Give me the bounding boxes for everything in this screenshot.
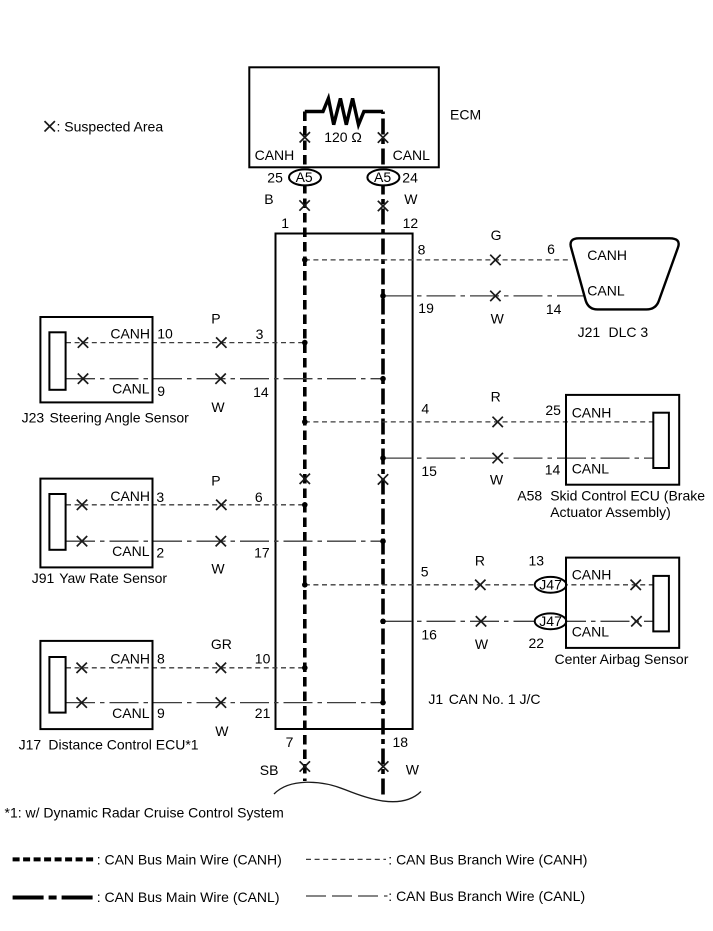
svg-text:13: 13 xyxy=(529,553,545,569)
svg-text:CANL: CANL xyxy=(112,381,150,397)
node: junction dot CANL/DLC3 branch xyxy=(380,293,386,299)
legend: CAN bus main wire CANH sample line xyxy=(13,857,95,861)
svg-text:CANH: CANH xyxy=(587,247,627,263)
connector terminal rect in distance box xyxy=(49,657,65,713)
svg-text:W: W xyxy=(215,723,229,739)
connector A5 oval (CANL, pin 24) xyxy=(367,169,399,185)
svg-text:12: 12 xyxy=(403,215,419,231)
svg-text:: CAN Bus Branch Wire (CANL): : CAN Bus Branch Wire (CANL) xyxy=(388,888,585,904)
suspected area mark inside airbag box CANL xyxy=(631,616,641,626)
svg-text:: CAN Bus Main Wire (CANH): : CAN Bus Main Wire (CANH) xyxy=(97,851,282,867)
svg-text:A5: A5 xyxy=(296,169,313,185)
svg-text:8: 8 xyxy=(418,241,426,257)
wire CANH branch to DLC3 (pin 8 to 6) xyxy=(305,259,572,261)
node: junction dot CANH/DLC3 branch xyxy=(302,257,308,263)
svg-text:CANH: CANH xyxy=(110,326,150,342)
wire CANH branch from Yaw Rate Sensor (pin 3 to 6) xyxy=(66,504,305,506)
svg-text:CANH: CANH xyxy=(572,405,612,421)
svg-text:CANL: CANL xyxy=(572,624,610,640)
ECU Center Airbag Sensor box xyxy=(566,558,679,648)
suspected area mark on CANH below A5 xyxy=(299,200,309,210)
suspected area mark inside steering box CANL xyxy=(78,374,88,384)
svg-text:14: 14 xyxy=(545,462,561,478)
legend: CAN bus branch wire CANL sample line xyxy=(306,895,388,897)
svg-text:W: W xyxy=(404,191,418,207)
suspected area mark inside airbag box CANH xyxy=(631,580,641,590)
legend: CAN bus main wire CANL sample line xyxy=(13,896,95,900)
svg-text:5: 5 xyxy=(421,563,429,579)
svg-text:1: 1 xyxy=(281,215,289,231)
svg-text:10: 10 xyxy=(255,651,271,667)
svg-text:6: 6 xyxy=(547,241,555,257)
svg-text:Yaw Rate Sensor: Yaw Rate Sensor xyxy=(59,570,167,586)
suspected area mark on distance CANL branch xyxy=(216,697,226,707)
svg-text:4: 4 xyxy=(421,400,429,416)
svg-text:CANL: CANL xyxy=(112,543,150,559)
resistor 120 ohm (terminating resistor inside ECM) xyxy=(305,98,383,124)
node: junction dot CANH/yaw branch xyxy=(302,502,308,508)
svg-text:CANH: CANH xyxy=(110,651,150,667)
svg-text:A58: A58 xyxy=(517,488,542,504)
suspected area mark on CANL below J/C xyxy=(378,761,388,771)
ECU J91 Yaw Rate Sensor box xyxy=(40,479,152,568)
suspected area mark on CANH below J/C xyxy=(300,761,310,771)
connector terminal rect in yaw box xyxy=(49,494,65,550)
suspected area mark inside distance box CANH xyxy=(77,663,87,673)
svg-text:19: 19 xyxy=(418,300,434,316)
svg-text:CANH: CANH xyxy=(110,488,150,504)
connector J47 oval on CANL airbag branch xyxy=(535,613,567,629)
svg-text:15: 15 xyxy=(421,463,437,479)
wire CANL branch from Distance Control ECU (pin 9 to 21) xyxy=(66,702,383,704)
suspected area mark on yaw CANL branch xyxy=(216,536,226,546)
suspected area mark inside steering box CANH xyxy=(78,337,88,347)
suspected area mark on distance CANH branch xyxy=(216,663,226,673)
svg-text:W: W xyxy=(406,761,420,777)
svg-text:W: W xyxy=(475,636,489,652)
svg-text:SB: SB xyxy=(260,762,279,778)
svg-text:Center Airbag Sensor: Center Airbag Sensor xyxy=(555,651,689,667)
svg-text:14: 14 xyxy=(546,301,562,317)
suspected area mark on steering CANL branch xyxy=(215,374,225,384)
svg-text:Actuator Assembly): Actuator Assembly) xyxy=(550,504,671,520)
wire CANL branch to Center Airbag Sensor (pin 16 to 22) xyxy=(383,620,653,622)
node: junction dot CANH/skid branch xyxy=(302,419,308,425)
suspected area mark on ECM CANH lead xyxy=(300,132,310,142)
svg-text:CAN No. 1 J/C: CAN No. 1 J/C xyxy=(449,691,541,707)
svg-text:6: 6 xyxy=(255,489,263,505)
node: junction dot CANL/skid branch xyxy=(380,455,386,461)
svg-text:24: 24 xyxy=(402,169,418,185)
wire CANL branch to DLC3 (pin 19 to 14) xyxy=(383,295,585,297)
svg-text:J1: J1 xyxy=(428,691,443,707)
wire CANL main bold dash-dot vertical (ECM to break) xyxy=(381,112,385,800)
connector terminal rect in airbag box xyxy=(653,576,669,632)
svg-text:120 Ω: 120 Ω xyxy=(324,129,362,145)
svg-text:W: W xyxy=(490,471,504,487)
ECU A58 Skid Control box xyxy=(566,395,679,485)
wire CANH main bold dashed vertical (ECM to break) xyxy=(303,112,307,782)
suspected area mark on airbag CANL branch xyxy=(476,616,486,626)
suspected area mark on skid CANL branch xyxy=(493,453,503,463)
svg-text:CANH: CANH xyxy=(255,147,295,163)
svg-text:W: W xyxy=(211,399,225,415)
wire CANH branch to Center Airbag Sensor (pin 5 to 13) xyxy=(305,584,653,586)
suspected area mark on DLC3 CANL branch xyxy=(490,291,500,301)
svg-text:Steering Angle Sensor: Steering Angle Sensor xyxy=(50,409,190,425)
wire CANL branch from Yaw Rate Sensor (pin 2 to 17) xyxy=(66,540,383,542)
svg-text:3: 3 xyxy=(156,489,164,505)
wire CANH branch to Skid Control ECU (pin 4 to 25) xyxy=(305,421,653,423)
suspected area mark on CANL main wire xyxy=(378,474,388,484)
svg-text:8: 8 xyxy=(157,651,165,667)
svg-text:: CAN Bus Branch Wire (CANH): : CAN Bus Branch Wire (CANH) xyxy=(388,851,587,867)
wire CANL branch to Skid Control ECU (pin 15 to 14) xyxy=(383,457,653,459)
wire CANH branch from Steering Angle Sensor (pin 10 to 3) xyxy=(66,342,305,344)
svg-text:10: 10 xyxy=(157,326,173,342)
svg-text:J47: J47 xyxy=(539,577,562,593)
suspected area mark inside yaw box CANL xyxy=(77,536,87,546)
svg-text:18: 18 xyxy=(393,734,409,750)
svg-text:Distance Control ECU*1: Distance Control ECU*1 xyxy=(48,737,198,753)
node: junction dot CANH/airbag branch xyxy=(302,582,308,588)
suspected area mark on CANH main wire xyxy=(300,474,310,484)
svg-text:J23: J23 xyxy=(22,409,45,425)
suspected area mark on CANL below A5 xyxy=(378,201,388,211)
svg-text:Skid Control ECU (Brake: Skid Control ECU (Brake xyxy=(550,488,705,504)
svg-text:14: 14 xyxy=(253,384,269,400)
svg-text:17: 17 xyxy=(254,544,270,560)
svg-text:CANL: CANL xyxy=(587,282,625,298)
svg-text:G: G xyxy=(491,227,502,243)
wire CANL branch from Steering Angle Sensor (pin 9 to 14) xyxy=(66,378,383,380)
svg-text:9: 9 xyxy=(157,705,165,721)
junction block J1 box (CAN No. 1 J/C) xyxy=(276,234,413,730)
svg-text:J17: J17 xyxy=(19,737,42,753)
svg-text:25: 25 xyxy=(545,402,561,418)
wire CANH branch from Distance Control ECU (pin 8 to 10) xyxy=(66,667,305,669)
svg-text:21: 21 xyxy=(255,705,271,721)
svg-text:J21: J21 xyxy=(578,324,601,340)
svg-text:2: 2 xyxy=(156,544,164,560)
svg-text:CANL: CANL xyxy=(572,461,610,477)
ECU J23 Steering Angle Sensor box xyxy=(40,317,152,402)
svg-text:CANH: CANH xyxy=(572,567,612,583)
connector terminal rect in skid box xyxy=(653,413,669,468)
svg-text:: CAN Bus Main Wire (CANL): : CAN Bus Main Wire (CANL) xyxy=(97,889,280,905)
svg-text:3: 3 xyxy=(256,326,264,342)
node: junction dot CANL/yaw branch xyxy=(380,538,386,544)
node: junction dot CANL/distance branch xyxy=(380,700,386,706)
svg-text:GR: GR xyxy=(211,636,232,652)
svg-text:J47: J47 xyxy=(539,613,562,629)
connector A5 oval (CANH, pin 25) xyxy=(289,169,321,185)
connector J21 DLC 3 trapezoid xyxy=(571,238,679,309)
svg-text:J91: J91 xyxy=(32,570,55,586)
svg-text:CANL: CANL xyxy=(393,147,431,163)
node: junction dot CANL/steering branch xyxy=(380,376,386,382)
suspected area mark inside distance box CANL xyxy=(77,697,87,707)
ECM box xyxy=(249,67,438,167)
suspected area mark on yaw CANH branch xyxy=(216,500,226,510)
suspected area mark on airbag CANH branch xyxy=(475,580,485,590)
svg-text:W: W xyxy=(211,560,225,576)
svg-text:22: 22 xyxy=(529,635,545,651)
LEGEND-X: suspected area legend mark xyxy=(45,121,55,131)
svg-text:16: 16 xyxy=(421,627,437,643)
node: junction dot CANL/airbag branch xyxy=(380,619,386,625)
svg-text:W: W xyxy=(491,311,505,327)
connector J47 oval on CANH airbag branch xyxy=(535,577,567,593)
svg-text:ECM: ECM xyxy=(450,106,481,122)
svg-text:*1: w/ Dynamic Radar Cruise Co: *1: w/ Dynamic Radar Cruise Control Syst… xyxy=(5,805,284,821)
ECU J17 Distance Control ECU box xyxy=(40,641,152,729)
svg-text:: Suspected Area: : Suspected Area xyxy=(57,118,164,134)
svg-text:R: R xyxy=(475,553,485,569)
svg-text:R: R xyxy=(491,389,501,405)
svg-text:25: 25 xyxy=(267,169,283,185)
node: junction dot CANH/distance branch xyxy=(302,665,308,671)
svg-text:CANL: CANL xyxy=(112,705,150,721)
svg-text:9: 9 xyxy=(157,383,165,399)
svg-text:B: B xyxy=(264,191,273,207)
suspected area mark on ECM CANL lead xyxy=(378,132,388,142)
suspected area mark on steering CANH branch xyxy=(216,337,226,347)
suspected area mark on skid CANH branch xyxy=(493,417,503,427)
legend: CAN bus branch wire CANH sample line xyxy=(306,858,386,860)
svg-text:P: P xyxy=(211,472,220,488)
svg-text:7: 7 xyxy=(286,734,294,750)
suspected area mark inside yaw box CANH xyxy=(77,500,87,510)
svg-text:P: P xyxy=(211,310,220,326)
svg-text:A5: A5 xyxy=(374,169,391,185)
suspected area mark on DLC3 CANH branch xyxy=(490,255,500,265)
node: junction dot CANH/steering branch xyxy=(302,340,308,346)
connector terminal rect in steering box xyxy=(49,332,65,390)
wire break wave symbol xyxy=(274,782,421,801)
svg-text:DLC 3: DLC 3 xyxy=(609,324,649,340)
